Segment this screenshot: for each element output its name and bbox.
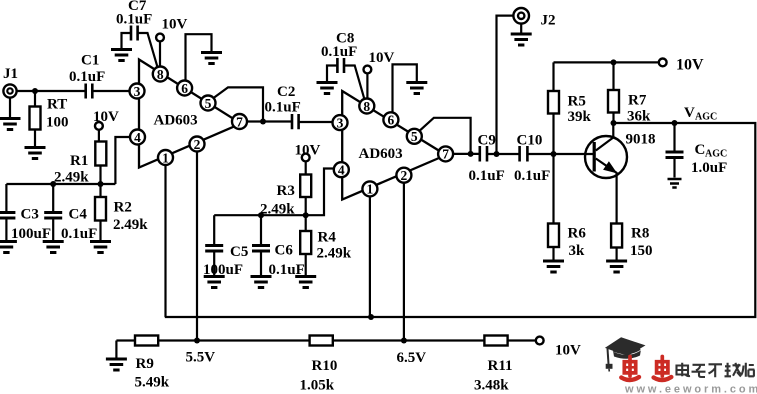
svg-text:10V: 10V — [162, 17, 188, 33]
ground below R4 — [295, 277, 316, 288]
svg-text:6.5V: 6.5V — [397, 350, 427, 366]
node C4 junction — [50, 181, 56, 187]
resistor R3 — [260, 161, 311, 217]
svg-text:6: 6 — [388, 113, 395, 128]
svg-text:5: 5 — [411, 129, 418, 144]
U2 pin 4 — [334, 162, 349, 177]
svg-text:3k: 3k — [569, 243, 586, 259]
svg-text:AD603: AD603 — [154, 113, 198, 129]
U2 pin 7 — [438, 146, 453, 161]
svg-text:100uF: 100uF — [11, 226, 51, 242]
capacitor C3 — [0, 184, 51, 242]
op-amp U1 AD603 triangle — [139, 60, 241, 168]
resistor R11 — [474, 336, 513, 394]
wire C8 left to ground — [317, 66, 338, 94]
node J2 junction — [494, 151, 500, 157]
transistor Q1 9018 — [585, 123, 656, 224]
resistor R4 — [300, 215, 352, 275]
U1 pin 4 — [130, 130, 145, 145]
svg-text:0.1uF: 0.1uF — [61, 226, 97, 242]
svg-text:5: 5 — [205, 96, 212, 111]
svg-text:0.1uF: 0.1uF — [321, 44, 357, 60]
capacitor C7 — [116, 0, 152, 41]
U1 pin 3 — [130, 84, 145, 99]
terminal 10V (U2 pin8) — [364, 50, 395, 73]
wire U1 pin6 to ground — [186, 34, 223, 80]
U1 pin 1 — [158, 150, 173, 165]
svg-text:C: C — [695, 142, 706, 158]
svg-text:R8: R8 — [631, 226, 649, 242]
U1 pin 6 — [177, 81, 192, 96]
node R1/R2 junction — [98, 181, 104, 187]
wire bias bus 1 — [6, 183, 115, 185]
wire U1 pin4 to bias bus — [115, 137, 130, 184]
svg-text:7: 7 — [442, 147, 449, 162]
connector J1 — [3, 66, 18, 98]
capacitor C10 — [514, 133, 550, 185]
ground left of R9 — [106, 341, 127, 371]
U2 pin 6 — [383, 112, 398, 127]
resistor R9 — [135, 336, 170, 391]
svg-text:1.05k: 1.05k — [300, 378, 335, 394]
capacitor C4 — [44, 184, 97, 242]
node base bias junction — [551, 151, 557, 157]
svg-text:R5: R5 — [568, 94, 586, 110]
svg-text:9018: 9018 — [626, 132, 656, 148]
svg-text:C1: C1 — [81, 53, 99, 69]
resistor R10 — [300, 336, 338, 394]
U2 pin 8 — [359, 99, 374, 114]
svg-text:C2: C2 — [277, 84, 295, 100]
wire J1 to C1 — [17, 90, 85, 92]
svg-text:6: 6 — [181, 81, 188, 96]
svg-text:0.1uF: 0.1uF — [69, 69, 105, 85]
bottom supply bus — [116, 339, 535, 341]
svg-text:2.49k: 2.49k — [317, 246, 352, 262]
svg-text:R11: R11 — [488, 358, 513, 374]
ground below C3 — [0, 242, 17, 253]
wire C7 left to ground — [111, 33, 132, 61]
svg-text:R1: R1 — [70, 153, 88, 169]
ground below R8 — [606, 261, 627, 272]
wire 10V to pin8 — [159, 41, 161, 66]
terminal 10V (R1) — [93, 109, 119, 130]
svg-text:10V: 10V — [676, 57, 704, 74]
svg-text:10V: 10V — [369, 50, 395, 66]
U2 pin 1 — [362, 181, 377, 196]
capacitor C5 — [203, 215, 248, 278]
logo black text dianzi xiazaizhan — [677, 363, 755, 378]
wire C8 right to U2 pin8 — [344, 66, 365, 100]
svg-text:C9: C9 — [478, 133, 496, 149]
svg-text:2: 2 — [194, 137, 201, 152]
svg-text:5.5V: 5.5V — [186, 350, 216, 366]
terminal 10V bottom — [536, 337, 581, 359]
capacitor C9 — [469, 133, 505, 185]
svg-text:RT: RT — [47, 97, 67, 113]
U1 pin 2 — [190, 137, 205, 152]
wire VAGC node — [165, 123, 756, 317]
wire C10 to base node — [527, 153, 593, 155]
wire to J2 — [497, 16, 514, 154]
node CAGC junction — [672, 120, 678, 126]
svg-text:www.eeworm.com: www.eeworm.com — [624, 384, 757, 394]
wire U2 pin7 output — [453, 153, 480, 155]
resistor R7 — [608, 62, 651, 124]
wire C1 to pin3 — [92, 90, 130, 92]
resistor R1 — [54, 130, 106, 186]
svg-text:0.1uF: 0.1uF — [269, 262, 305, 278]
wire C7 right to U1 pin8 — [138, 33, 158, 68]
svg-text:R4: R4 — [318, 230, 337, 246]
svg-text:AGC: AGC — [705, 149, 727, 160]
wire U1 pin5 feedback to output — [213, 87, 263, 121]
capacitor C2 — [265, 84, 301, 129]
U1 pin 8 — [153, 67, 168, 82]
resistor R5 — [548, 62, 592, 154]
svg-text:10V: 10V — [295, 143, 321, 159]
ground below C4 — [43, 242, 64, 253]
node feedback junction U2 — [468, 151, 474, 157]
resistor R2 — [95, 184, 148, 240]
svg-text:4: 4 — [338, 163, 345, 178]
node C6 junction — [258, 212, 264, 218]
svg-text:2: 2 — [401, 168, 408, 183]
wire U2 pin6 to ground — [393, 64, 428, 113]
node U2 pin1 AGC junction — [368, 314, 374, 320]
svg-text:R10: R10 — [312, 358, 338, 374]
ground below J1 — [0, 98, 21, 130]
svg-text:0.1uF: 0.1uF — [514, 168, 550, 184]
resistor R6 — [548, 154, 586, 260]
wire C9 to C10 — [487, 153, 519, 155]
svg-text:V: V — [684, 105, 695, 121]
svg-text:7: 7 — [236, 114, 243, 129]
U2 pin 5 — [407, 129, 422, 144]
resistor R8 — [611, 224, 652, 260]
capacitor C8 — [321, 31, 357, 74]
svg-text:J2: J2 — [541, 13, 556, 29]
ground below CAGC — [668, 179, 682, 188]
node feedback junction U1 — [260, 119, 266, 125]
svg-text:AD603: AD603 — [359, 146, 403, 162]
logo graduation cap — [605, 337, 646, 371]
svg-text:3.48k: 3.48k — [474, 378, 509, 394]
svg-text:J1: J1 — [3, 66, 18, 82]
resistor RT — [30, 91, 69, 146]
svg-text:C5: C5 — [230, 244, 248, 260]
wire C2 to U2 pin3 — [299, 121, 333, 123]
logo red text chong-chong — [621, 357, 671, 381]
ground below R6 — [543, 261, 564, 272]
svg-text:3: 3 — [134, 84, 141, 99]
wire U1 pin7 output — [247, 120, 292, 122]
ground below C5 — [204, 277, 225, 288]
svg-text:2.49k: 2.49k — [113, 217, 148, 233]
capacitor CAGC — [666, 123, 728, 178]
wire U2 pin2 down to 6.5V — [403, 183, 405, 341]
ground below RT — [25, 148, 46, 159]
svg-text:0.1uF: 0.1uF — [265, 100, 301, 116]
svg-text:R7: R7 — [628, 93, 647, 109]
svg-text:R6: R6 — [568, 226, 587, 242]
svg-text:R3: R3 — [277, 183, 295, 199]
svg-text:3: 3 — [337, 115, 344, 130]
wire U2 pin5 feedback to output — [419, 118, 470, 154]
U2 pin 3 — [333, 115, 348, 130]
ground below J2 — [511, 24, 532, 45]
U1 pin 7 — [232, 114, 247, 129]
U1 pin 5 — [201, 96, 216, 111]
node 6.5V junction — [397, 338, 427, 367]
svg-text:R9: R9 — [136, 356, 154, 372]
svg-text:0.1uF: 0.1uF — [469, 168, 505, 184]
svg-text:R2: R2 — [114, 200, 132, 216]
svg-text:10V: 10V — [93, 109, 119, 125]
connector J2 — [513, 8, 555, 29]
svg-text:10V: 10V — [555, 343, 581, 359]
svg-text:C4: C4 — [69, 207, 88, 223]
U2 pin 2 — [396, 168, 411, 183]
svg-text:39k: 39k — [568, 109, 592, 125]
node 5.5V junction — [186, 338, 216, 366]
node R3/R4 junction — [303, 212, 309, 218]
svg-text:1: 1 — [367, 182, 374, 197]
node R7 top junction — [611, 59, 617, 65]
svg-text:8: 8 — [363, 99, 370, 114]
node VAGC label — [684, 105, 717, 123]
svg-text:8: 8 — [157, 67, 164, 82]
wire U1 pin1 down to AGC line — [164, 165, 166, 317]
svg-text:AGC: AGC — [695, 112, 717, 123]
wire 10V to U2 pin8 — [366, 73, 368, 98]
terminal 10V top right — [659, 57, 704, 74]
terminal 10V (R3) — [295, 143, 321, 162]
svg-text:1: 1 — [162, 150, 169, 165]
wire bias bus 2 — [214, 169, 334, 216]
ground below C6 — [251, 277, 272, 288]
svg-text:1.0uF: 1.0uF — [691, 160, 727, 176]
capacitor C1 — [69, 53, 105, 99]
svg-text:C10: C10 — [517, 133, 543, 149]
svg-text:100: 100 — [46, 115, 69, 131]
svg-text:150: 150 — [630, 243, 653, 259]
node junction J1/RT — [32, 88, 38, 94]
op-amp U2 AD603 triangle — [342, 91, 446, 200]
svg-text:4: 4 — [134, 130, 141, 145]
terminal 10V (U1 pin8) — [156, 17, 187, 42]
ground below R2 — [90, 242, 111, 253]
svg-text:5.49k: 5.49k — [135, 375, 170, 391]
wire U1 pin2 down to 5.5V — [196, 151, 198, 340]
svg-text:C3: C3 — [21, 207, 39, 223]
capacitor C6 — [252, 215, 305, 278]
wire U2 pin1 down to AGC line — [369, 196, 371, 317]
svg-text:C6: C6 — [275, 243, 294, 259]
node collector junction — [611, 120, 617, 126]
svg-text:0.1uF: 0.1uF — [116, 12, 152, 28]
wire 10V rail top right — [554, 61, 659, 63]
